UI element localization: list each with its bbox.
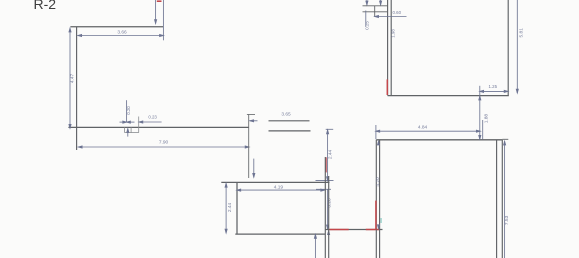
- svg-text:4.19: 4.19: [274, 184, 284, 190]
- wall top-right room bottom: [388, 95, 509, 97]
- dimension 0.60 line: [375, 15, 407, 17]
- svg-text:4.20: 4.20: [375, 177, 381, 187]
- red segment on left wall: [375, 201, 377, 230]
- dimension 1.88 vertical: [479, 96, 483, 139]
- red segment on it: [386, 79, 388, 95]
- vertical connector x=374.7: [374, 6, 376, 17]
- dimension 4.84 line: [376, 125, 480, 139]
- dimension 7.90 line: [78, 146, 249, 148]
- dimension 4.19 line: [237, 189, 325, 191]
- node vertical line x=248.7: [248, 115, 250, 179]
- tick at its top: [247, 114, 255, 116]
- wall bottom-right room top: [376, 139, 502, 141]
- small down arrow x=253.8: [253, 159, 255, 178]
- svg-text:2.44: 2.44: [227, 203, 233, 213]
- wall top-right room left outer: [387, 0, 389, 95]
- dimension 3.66 line: [78, 34, 164, 36]
- wall bottom connector: [325, 229, 382, 231]
- wall central vertical left: [324, 157, 326, 258]
- svg-text:7.90: 7.90: [159, 139, 169, 145]
- teal tick on inner wall: [380, 218, 382, 223]
- wall bottom-right room left inner: [379, 140, 381, 258]
- top cluster: dim tick x=366.9: [366, 0, 368, 5]
- dimension 1.25 line: [480, 86, 508, 96]
- dimension 0.23 line: [139, 121, 162, 123]
- red overlay on connector 2: [366, 229, 380, 231]
- dim tick x=380.6: [380, 0, 382, 5]
- wall top thin extension: [502, 138, 508, 140]
- dimension 2.44 right column: [316, 129, 334, 180]
- door opening box in bottom wall: [125, 117, 139, 133]
- dimension 7.53 line: [504, 141, 506, 258]
- svg-text:1.25: 1.25: [489, 84, 498, 89]
- vertical line x=365.8: [365, 11, 367, 27]
- wall top-left room bottom: [68, 126, 249, 128]
- dimension 3.26: [316, 189, 331, 234]
- small arrow below wall: [127, 129, 129, 137]
- svg-text:0.25: 0.25: [365, 21, 370, 30]
- red segment on column: [325, 157, 327, 172]
- red tick at top: [157, 0, 162, 2]
- wall segment upper floating: [269, 120, 310, 122]
- wall top-left room top: [70, 26, 163, 28]
- wall segment floating: [269, 130, 311, 132]
- wall bottom-right room right outer: [496, 140, 498, 258]
- svg-text:R-2: R-2: [34, 0, 57, 12]
- svg-text:0.60: 0.60: [393, 10, 402, 15]
- wall top-right room right: [507, 0, 509, 96]
- wall central vertical right: [328, 176, 330, 258]
- dimension 0.20 vertical: [120, 100, 135, 123]
- svg-text:4.84: 4.84: [418, 125, 428, 131]
- wall top-left room left: [76, 27, 78, 150]
- dimension 4.20 arrows: [377, 141, 379, 228]
- short wall line y=11.8: [363, 11, 388, 13]
- dimension 2.44 middle room: [225, 183, 227, 233]
- svg-text:5.81: 5.81: [519, 28, 525, 38]
- wall middle room left: [236, 182, 238, 234]
- dimension 4.47 line: [69, 28, 71, 128]
- short wall line y=5.8: [363, 5, 388, 7]
- red overlay on connector 1: [330, 229, 349, 231]
- svg-text:0.23: 0.23: [148, 114, 157, 119]
- svg-text:3.65: 3.65: [281, 112, 291, 118]
- wall top-right room left inner: [390, 0, 392, 95]
- dimension 3.65 line: [250, 120, 258, 122]
- wall middle room top: [221, 181, 329, 183]
- dimension line from above x=155.6: [155, 0, 157, 24]
- svg-text:1.88: 1.88: [483, 114, 489, 124]
- svg-text:2.44: 2.44: [328, 150, 334, 160]
- svg-text:4.47: 4.47: [69, 74, 75, 84]
- svg-text:7.53: 7.53: [504, 215, 510, 225]
- wall middle room bottom: [235, 233, 325, 235]
- dimension line bottom middle: [314, 235, 316, 258]
- dimension 5.81 line: [516, 0, 518, 93]
- extension line x=163.4: [162, 0, 164, 40]
- svg-text:3.66: 3.66: [117, 29, 127, 35]
- wall bottom-right room left outer: [375, 140, 377, 258]
- svg-text:1.98: 1.98: [391, 29, 396, 38]
- svg-text:0.20: 0.20: [126, 106, 131, 115]
- wall bottom-right room right inner: [501, 140, 503, 258]
- svg-text:3.26: 3.26: [326, 198, 332, 208]
